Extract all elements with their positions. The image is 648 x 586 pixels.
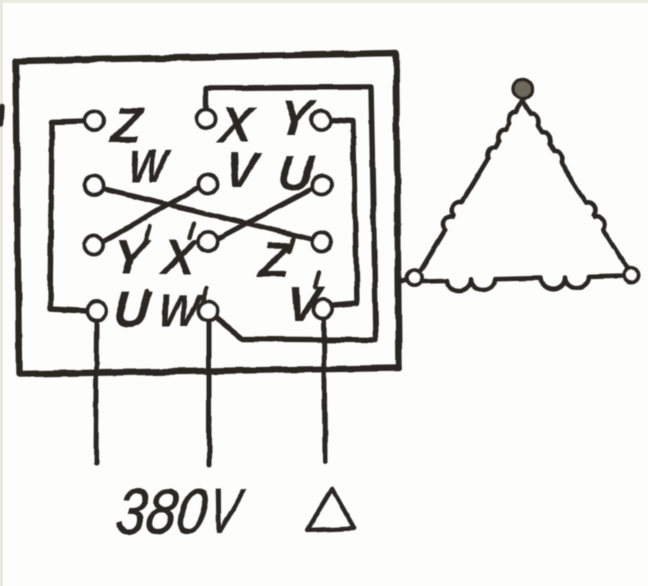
svg-text:W: W — [156, 284, 205, 336]
winding triangle apex node (filled) — [513, 79, 533, 99]
wire Y to V' (right jumper bracket) — [331, 120, 357, 305]
terminal Z' — [313, 233, 332, 252]
terminal X' — [199, 233, 218, 252]
terminal W' — [199, 302, 218, 321]
paper edge tint top — [0, 0, 648, 3]
svg-text:V: V — [204, 477, 249, 547]
svg-text:X: X — [157, 229, 201, 285]
terminal Y' — [85, 236, 104, 255]
wire box to winding triangle — [399, 280, 407, 281]
wire V to Y' (cross jumper) — [103, 187, 199, 242]
winding triangle left side — [421, 101, 523, 270]
delta symbol under supply — [307, 489, 354, 530]
wire supply line U' — [96, 321, 97, 463]
svg-text:V: V — [284, 276, 326, 332]
terminal V — [199, 175, 218, 194]
prime mark of Z' — [289, 238, 293, 252]
terminal U — [313, 176, 332, 195]
wire X to W' (top-right jumper bracket) — [206, 87, 376, 340]
wire W to Z' (long cross jumper) — [103, 189, 313, 239]
terminal W — [85, 177, 104, 196]
prime mark of Y' — [146, 226, 150, 240]
terminal X — [197, 110, 216, 129]
wire Z to U' (left jumper bracket) — [50, 121, 88, 311]
terminal Y — [312, 111, 331, 130]
paper edge tint left — [0, 0, 3, 586]
winding triangle bottom side — [423, 276, 624, 291]
terminal V' — [314, 300, 333, 319]
svg-text:V: V — [222, 142, 264, 198]
svg-text:380: 380 — [112, 477, 212, 547]
wire supply line W' — [207, 321, 212, 465]
winding triangle right vertex terminal — [624, 268, 639, 283]
svg-text:U: U — [275, 145, 318, 201]
wire U to X' (cross jumper) — [217, 188, 313, 239]
winding triangle right side — [523, 101, 627, 266]
terminal box outline — [16, 53, 399, 374]
terminal Z — [85, 112, 104, 131]
winding triangle left vertex terminal — [407, 271, 422, 286]
scan mark left edge — [1, 107, 2, 124]
svg-text:W: W — [126, 140, 173, 192]
terminal U' — [88, 302, 107, 321]
prime mark of X' — [190, 223, 194, 237]
prime mark of V' — [315, 273, 319, 287]
prime mark of U' — [143, 291, 147, 305]
wire supply line V' — [324, 318, 325, 462]
prime mark of W' — [203, 288, 207, 302]
